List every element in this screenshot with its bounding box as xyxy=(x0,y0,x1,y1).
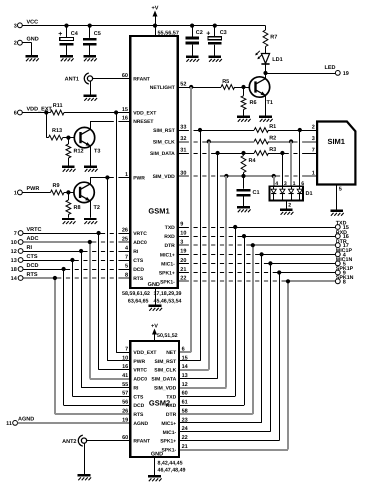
wire R13 to T3 base xyxy=(46,136,80,140)
svg-text:+V: +V xyxy=(151,324,158,330)
connector pin 6 VDD_EXT xyxy=(14,106,53,116)
svg-text:7: 7 xyxy=(125,254,128,260)
svg-text:R8: R8 xyxy=(74,205,81,211)
svg-text:RTS: RTS xyxy=(27,272,38,278)
svg-text:SPK1N: SPK1N xyxy=(336,275,354,281)
svg-text:MIC1+: MIC1+ xyxy=(160,252,175,258)
resistor R1 xyxy=(254,124,276,132)
svg-text:20: 20 xyxy=(180,258,186,264)
svg-text:4: 4 xyxy=(275,181,278,187)
svg-text:MIC1-: MIC1- xyxy=(163,430,177,436)
svg-text:C1: C1 xyxy=(253,190,260,196)
ground (C2) xyxy=(186,56,199,62)
svg-text:22: 22 xyxy=(182,435,188,441)
wire SPK1P into GSM2 right xyxy=(179,440,279,442)
svg-text:3: 3 xyxy=(312,136,315,142)
ground (C4) xyxy=(60,55,73,61)
wire T1 collector xyxy=(265,73,267,79)
svg-text:C3: C3 xyxy=(220,30,227,36)
wire C4 stub xyxy=(66,26,68,55)
wire MIC1P into GSM2 right xyxy=(179,422,262,424)
svg-text:5: 5 xyxy=(339,187,342,193)
svg-text:25: 25 xyxy=(122,236,128,242)
wire VRTC into GSM2 left xyxy=(99,369,131,371)
wire NRESET net xyxy=(91,121,131,123)
wire C5 stub xyxy=(89,26,91,55)
connector pin 17 DTR xyxy=(335,239,348,249)
wire R8 stubs xyxy=(68,192,70,217)
connector pin 10 ADC xyxy=(11,236,39,246)
wire SPK1P bus vertical xyxy=(279,273,281,441)
svg-text:PWR: PWR xyxy=(27,186,40,192)
wire ANT1 to ground xyxy=(90,81,92,95)
connector pin 1 PWR xyxy=(14,186,40,196)
wire SIM_CLK net xyxy=(178,139,318,143)
svg-text:SPK1+: SPK1+ xyxy=(160,439,176,445)
ground (C1) xyxy=(237,206,250,212)
wire RI bus vertical xyxy=(81,251,83,388)
wire NETLIGHT bus vertical xyxy=(190,87,192,352)
wire ADC into GSM2 left xyxy=(90,378,130,380)
svg-text:C5: C5 xyxy=(94,31,101,37)
svg-text:2: 2 xyxy=(312,124,315,130)
wire SIM_VDD net xyxy=(178,174,318,178)
svg-text:GND: GND xyxy=(27,37,39,43)
svg-text:33: 33 xyxy=(180,124,186,130)
wire MIC1N bus vertical xyxy=(270,263,272,431)
svg-text:1: 1 xyxy=(293,181,296,187)
svg-text:RXD: RXD xyxy=(336,230,347,236)
svg-text:T1: T1 xyxy=(267,100,273,106)
ground (T1) xyxy=(259,116,272,122)
svg-text:6: 6 xyxy=(301,181,304,187)
svg-text:21: 21 xyxy=(180,267,186,273)
wire SIM_CLK to D1 pin 1 vertical xyxy=(290,142,292,187)
wire PWR bus vertical xyxy=(107,178,109,361)
svg-text:R11: R11 xyxy=(53,103,63,109)
svg-text:32: 32 xyxy=(180,136,186,142)
svg-text:30: 30 xyxy=(180,170,186,176)
svg-text:52: 52 xyxy=(180,81,186,87)
svg-text:9: 9 xyxy=(180,221,183,227)
svg-text:NRESET: NRESET xyxy=(133,119,153,125)
wire SIM_RST to D1 pin 6 vertical xyxy=(299,130,301,186)
svg-text:11: 11 xyxy=(6,421,12,427)
svg-text:MIC1P: MIC1P xyxy=(336,248,353,254)
diode array D1 xyxy=(270,186,313,200)
wire SIM_VDD to D1 pin 4 vertical xyxy=(273,176,275,186)
wire R12 stubs xyxy=(68,138,70,166)
transistor T1 xyxy=(249,77,273,106)
wire VCC supply rail xyxy=(23,24,266,28)
wire C2 stub xyxy=(192,26,194,56)
wire MIC1N net to connector xyxy=(178,261,336,265)
svg-text:50,51,52: 50,51,52 xyxy=(157,333,178,339)
wire RI net from connector xyxy=(23,249,130,253)
wire ANT2 to ground xyxy=(84,443,86,474)
wire SIM_RST net xyxy=(178,128,318,132)
svg-text:61: 61 xyxy=(182,400,188,406)
resistor R5 xyxy=(221,79,235,90)
svg-text:15: 15 xyxy=(122,107,128,113)
resistor R7 xyxy=(263,30,277,47)
connector pin 2 GND xyxy=(14,37,39,47)
svg-text:SPK1-: SPK1- xyxy=(160,279,175,285)
connector ANT2 xyxy=(62,435,86,446)
ground (GSM2) xyxy=(148,475,161,481)
wire MIC1P net to connector xyxy=(178,252,336,256)
connector pin 18 DCD xyxy=(11,263,39,273)
wire MIC1P bus vertical xyxy=(261,254,263,423)
wire T3 emitter xyxy=(90,146,92,166)
LED LD1 xyxy=(255,51,282,64)
svg-text:23: 23 xyxy=(182,417,188,423)
svg-text:MIC1N: MIC1N xyxy=(336,257,353,263)
wire MIC1N into GSM2 right xyxy=(179,431,270,433)
svg-text:SIM1: SIM1 xyxy=(327,137,345,146)
label GSM2 GND pins 8,42,44,45 46,47,48,49 xyxy=(158,460,186,473)
wire CTS net from connector xyxy=(23,258,130,262)
wire R4 stubs xyxy=(243,153,245,176)
wire SIM_DATA into GSM2 right xyxy=(179,378,218,380)
svg-text:VRTC: VRTC xyxy=(133,231,147,237)
svg-text:31: 31 xyxy=(180,147,186,153)
wire PWR input net xyxy=(23,190,81,194)
wire SIM_DATA to D1 pin 3 vertical xyxy=(282,153,284,186)
svg-text:RXD: RXD xyxy=(164,234,175,240)
wire ADC net from connector xyxy=(23,240,130,244)
svg-text:D1: D1 xyxy=(306,191,313,197)
svg-text:SPK1+: SPK1+ xyxy=(159,271,175,277)
svg-text:RI: RI xyxy=(27,245,33,251)
capacitor C3 (polarized) xyxy=(206,30,227,45)
connector pin 8 SPK1N xyxy=(335,275,353,285)
svg-text:SPK1-: SPK1- xyxy=(161,448,176,454)
svg-text:56: 56 xyxy=(122,400,128,406)
svg-text:MIC1+: MIC1+ xyxy=(161,421,176,427)
svg-text:46,47,48,49: 46,47,48,49 xyxy=(158,468,186,474)
svg-text:DTR: DTR xyxy=(336,239,347,245)
svg-text:13: 13 xyxy=(182,373,188,379)
svg-text:AGND: AGND xyxy=(133,421,148,427)
svg-text:PWR: PWR xyxy=(133,176,145,182)
svg-text:16: 16 xyxy=(122,364,128,370)
svg-text:R2: R2 xyxy=(269,136,276,142)
svg-text:MIC1-: MIC1- xyxy=(161,261,175,267)
svg-text:SIM_RST: SIM_RST xyxy=(153,128,175,134)
connector pin 16 RXD xyxy=(335,230,348,240)
ground (D1) xyxy=(280,209,293,215)
node +V supply arrow (top) xyxy=(152,6,159,26)
wire VDD_EXT into GSM2 left xyxy=(116,352,130,354)
wire T2 emitter xyxy=(90,201,92,218)
svg-text:SPK1P: SPK1P xyxy=(336,266,354,272)
wire VRTC net from connector xyxy=(23,231,130,235)
ground (ANT1) xyxy=(84,95,97,101)
wire NETLIGHT net (GSM1 pin 52) xyxy=(178,85,256,89)
resistor R3 xyxy=(254,147,276,155)
svg-text:6: 6 xyxy=(14,111,17,117)
wire TXD net to connector xyxy=(178,225,336,229)
svg-text:R5: R5 xyxy=(222,79,229,85)
wire GSM2 GND stub xyxy=(154,457,156,475)
svg-text:R9: R9 xyxy=(53,183,60,189)
svg-text:26: 26 xyxy=(122,409,128,415)
svg-text:7: 7 xyxy=(125,346,128,352)
wire SIM_VDD into GSM2 right xyxy=(179,387,226,389)
svg-text:3: 3 xyxy=(14,23,17,29)
svg-text:ADC: ADC xyxy=(27,236,39,242)
connector pin 11 AGND xyxy=(6,417,34,427)
wire C3 stub xyxy=(214,26,216,56)
svg-text:1: 1 xyxy=(312,170,315,176)
svg-text:AGND: AGND xyxy=(18,417,34,423)
wire DCD into GSM2 left xyxy=(64,405,131,407)
resistor R9 xyxy=(51,183,65,195)
transistor T2 xyxy=(74,182,100,211)
svg-text:18: 18 xyxy=(11,267,17,273)
svg-text:5: 5 xyxy=(125,263,128,269)
svg-text:12: 12 xyxy=(182,382,188,388)
svg-text:GSM1: GSM1 xyxy=(148,207,169,216)
wire DCD bus vertical xyxy=(63,269,65,405)
svg-text:VRTC: VRTC xyxy=(133,368,147,374)
svg-text:10: 10 xyxy=(122,355,128,361)
svg-text:2: 2 xyxy=(14,41,17,47)
resistor R4 xyxy=(241,156,256,173)
ground (SIM1) xyxy=(330,210,343,216)
svg-text:R13: R13 xyxy=(52,128,62,134)
connector pin 14 RTS xyxy=(11,272,38,282)
wire SIM_DATA net xyxy=(178,151,318,155)
wire SIM_RST bus vertical xyxy=(200,130,202,361)
wire T1 emitter xyxy=(265,95,267,115)
ground (T3) xyxy=(84,166,97,172)
svg-text:10: 10 xyxy=(11,240,17,246)
svg-text:17,18,29,39: 17,18,29,39 xyxy=(154,291,182,297)
wire SIM_DATA bus vertical xyxy=(217,153,219,379)
svg-text:LD1: LD1 xyxy=(272,57,282,63)
wire VRTC bus vertical xyxy=(98,233,100,370)
wire CTS into GSM2 left xyxy=(72,396,130,398)
op-amp U-module GSM1 (SIM900) xyxy=(122,36,187,288)
svg-text:TXD: TXD xyxy=(165,225,175,231)
wire DCD net from connector xyxy=(23,267,130,271)
wire R6 bottom stub xyxy=(243,110,245,116)
svg-text:R7: R7 xyxy=(270,35,277,41)
svg-text:19: 19 xyxy=(180,249,186,255)
svg-text:VDD_EXT: VDD_EXT xyxy=(133,111,156,117)
svg-text:TXD: TXD xyxy=(166,394,176,400)
svg-text:GND: GND xyxy=(148,282,160,288)
wire SIM_CLK into GSM2 right xyxy=(179,369,209,371)
svg-text:22: 22 xyxy=(180,276,186,282)
wire R6 top stub xyxy=(243,87,245,96)
wire RI into GSM2 left xyxy=(81,387,130,389)
connector ANT1 xyxy=(65,73,93,84)
svg-text:ANT1: ANT1 xyxy=(65,77,79,83)
svg-text:R4: R4 xyxy=(249,158,257,164)
connector pin 19 LED xyxy=(325,65,349,77)
svg-text:15: 15 xyxy=(182,355,188,361)
wire GSM1 GND stub xyxy=(155,288,157,305)
svg-text:7: 7 xyxy=(312,147,315,153)
ground (ANT2) xyxy=(78,474,91,480)
svg-text:ANT2: ANT2 xyxy=(62,439,76,445)
ground (R12) xyxy=(62,166,75,172)
svg-text:RI: RI xyxy=(133,386,139,392)
svg-text:57: 57 xyxy=(122,391,128,397)
svg-text:24: 24 xyxy=(182,426,189,432)
svg-text:3: 3 xyxy=(284,181,287,187)
svg-text:+: + xyxy=(58,31,62,38)
svg-text:7: 7 xyxy=(14,231,17,237)
resistor R13 xyxy=(49,128,63,140)
svg-text:19: 19 xyxy=(343,71,349,77)
svg-text:14: 14 xyxy=(182,364,189,370)
svg-text:SIM_VDD: SIM_VDD xyxy=(153,174,176,180)
resistor R12 xyxy=(66,144,84,158)
connector pin 5 MIC1N xyxy=(335,257,352,267)
wire GSM1 VBAT stub xyxy=(155,26,157,36)
svg-text:R6: R6 xyxy=(250,100,257,106)
svg-text:CTS: CTS xyxy=(133,394,144,400)
svg-text:63,64,65: 63,64,65 xyxy=(128,298,149,304)
wire DTR into GSM2 right xyxy=(179,413,253,415)
label VBAT pins 55,56,57 xyxy=(158,30,179,36)
label D1 pin numbers 4 3 1 6 xyxy=(275,181,304,187)
wire DTR bus vertical xyxy=(252,245,254,414)
wire PWR into GSM2 left xyxy=(107,360,130,362)
resistor R6 xyxy=(241,96,256,110)
svg-text:PWR: PWR xyxy=(133,359,145,365)
wire LED net to connector xyxy=(263,71,335,75)
wire T3 collector to NRESET xyxy=(90,121,92,129)
svg-text:SIM_RST: SIM_RST xyxy=(155,359,177,365)
wire SIM_VDD bus vertical xyxy=(225,176,227,388)
wire CTS bus vertical xyxy=(72,260,74,396)
wire DTR net to connector xyxy=(178,243,336,247)
wire VDD_EXT bus vertical xyxy=(116,113,118,353)
ground (R6) xyxy=(237,116,250,122)
wire RTS net from connector xyxy=(23,276,130,280)
transistor T3 xyxy=(74,127,100,154)
wire AGND net xyxy=(18,422,131,424)
op-amp U-module GSM2 (SIM300) xyxy=(122,341,189,457)
svg-text:NET: NET xyxy=(166,350,176,356)
svg-text:41: 41 xyxy=(122,373,128,379)
ground (pin 2) xyxy=(25,55,38,61)
svg-text:58: 58 xyxy=(182,409,188,415)
svg-text:SIM_CLK: SIM_CLK xyxy=(153,140,175,146)
capacitor C1 xyxy=(237,189,260,197)
svg-text:DCD: DCD xyxy=(27,263,39,269)
svg-text:12: 12 xyxy=(11,249,17,255)
label GSM1 GND pins 17,18,29,39 45,46,53,54 xyxy=(154,291,182,305)
ground (C3) xyxy=(209,56,222,62)
svg-text:8,42,44,45: 8,42,44,45 xyxy=(158,460,183,466)
svg-text:2: 2 xyxy=(288,203,291,209)
capacitor C2 xyxy=(185,30,203,44)
wire RTS into GSM2 left xyxy=(55,413,130,415)
wire GND pin to ground xyxy=(23,43,32,56)
svg-text:19: 19 xyxy=(122,417,128,423)
svg-text:C4: C4 xyxy=(71,31,79,37)
svg-text:ADC0: ADC0 xyxy=(133,240,147,246)
svg-text:+V: +V xyxy=(152,6,159,12)
svg-text:26: 26 xyxy=(122,227,128,233)
wire ANT1 to GSM1 RFANT xyxy=(93,78,131,80)
wire C1 stub xyxy=(243,176,245,206)
svg-text:R3: R3 xyxy=(269,147,276,153)
connector SIM1 (SIM card socket) xyxy=(312,122,356,185)
capacitor C5 xyxy=(83,31,101,46)
connector pin 15 TXD xyxy=(335,221,348,231)
capacitor C4 (polarized) xyxy=(58,31,79,45)
wire SPK1N net to connector xyxy=(178,279,336,283)
svg-text:60: 60 xyxy=(122,73,128,79)
svg-text:6: 6 xyxy=(182,346,185,352)
wire VDD_EXT branch to R13 xyxy=(46,113,48,138)
svg-text:10: 10 xyxy=(180,231,186,237)
svg-text:8: 8 xyxy=(125,272,128,278)
wire D1 pin 2 stub xyxy=(287,200,292,208)
svg-text:RTS: RTS xyxy=(133,412,144,418)
svg-text:T3: T3 xyxy=(94,149,100,155)
label GSM2 VBAT pins 50,51,52 xyxy=(157,333,178,339)
connector pin 7 VRTC xyxy=(14,227,42,237)
svg-text:55: 55 xyxy=(122,382,128,388)
wire R7 to LD1 xyxy=(265,47,267,54)
wire RXD into GSM2 right xyxy=(179,405,244,407)
wire SIM1 pin 5 to ground xyxy=(337,185,342,210)
svg-text:60: 60 xyxy=(182,391,188,397)
svg-text:CTS: CTS xyxy=(27,254,38,260)
svg-text:TXD: TXD xyxy=(336,221,347,227)
svg-text:1: 1 xyxy=(125,172,128,178)
svg-text:SIM_CLK: SIM_CLK xyxy=(154,368,176,374)
wire SIM_CLK bus vertical xyxy=(208,142,210,370)
svg-text:58,59,61,62: 58,59,61,62 xyxy=(122,291,150,297)
svg-text:T2: T2 xyxy=(94,205,100,211)
svg-text:16: 16 xyxy=(122,115,128,121)
connector pin 9 SPK1P xyxy=(335,266,353,276)
wire TXD bus vertical xyxy=(235,227,237,396)
wire TXD into GSM2 right xyxy=(179,396,235,398)
svg-text:ADC0: ADC0 xyxy=(133,377,147,383)
connector pin 13 CTS xyxy=(11,254,38,264)
svg-text:R1: R1 xyxy=(269,124,276,130)
wire SIM_RST into GSM2 right xyxy=(179,360,200,362)
connector pin 12 RI xyxy=(11,245,33,255)
svg-text:DTR: DTR xyxy=(165,243,176,249)
wire LD1 cathode to node xyxy=(265,64,267,73)
ground (C5) xyxy=(83,55,96,61)
svg-text:14: 14 xyxy=(11,276,18,282)
ground (T2) xyxy=(84,218,97,224)
svg-text:VDD_EXT: VDD_EXT xyxy=(133,350,156,356)
wire RXD bus vertical xyxy=(244,236,246,405)
svg-text:LED: LED xyxy=(325,65,336,71)
resistor R8 xyxy=(66,200,81,215)
node +V supply arrow (GSM2) xyxy=(151,324,158,342)
wire RTS bus vertical xyxy=(54,278,56,414)
ground (GSM1) xyxy=(149,305,162,311)
svg-text:RI: RI xyxy=(133,249,139,255)
label GSM1 GND pins 58,59,61,62 63,64,65 xyxy=(122,291,150,305)
wire SPK1N into GSM2 right xyxy=(179,449,288,451)
ground (R8) xyxy=(62,218,75,224)
